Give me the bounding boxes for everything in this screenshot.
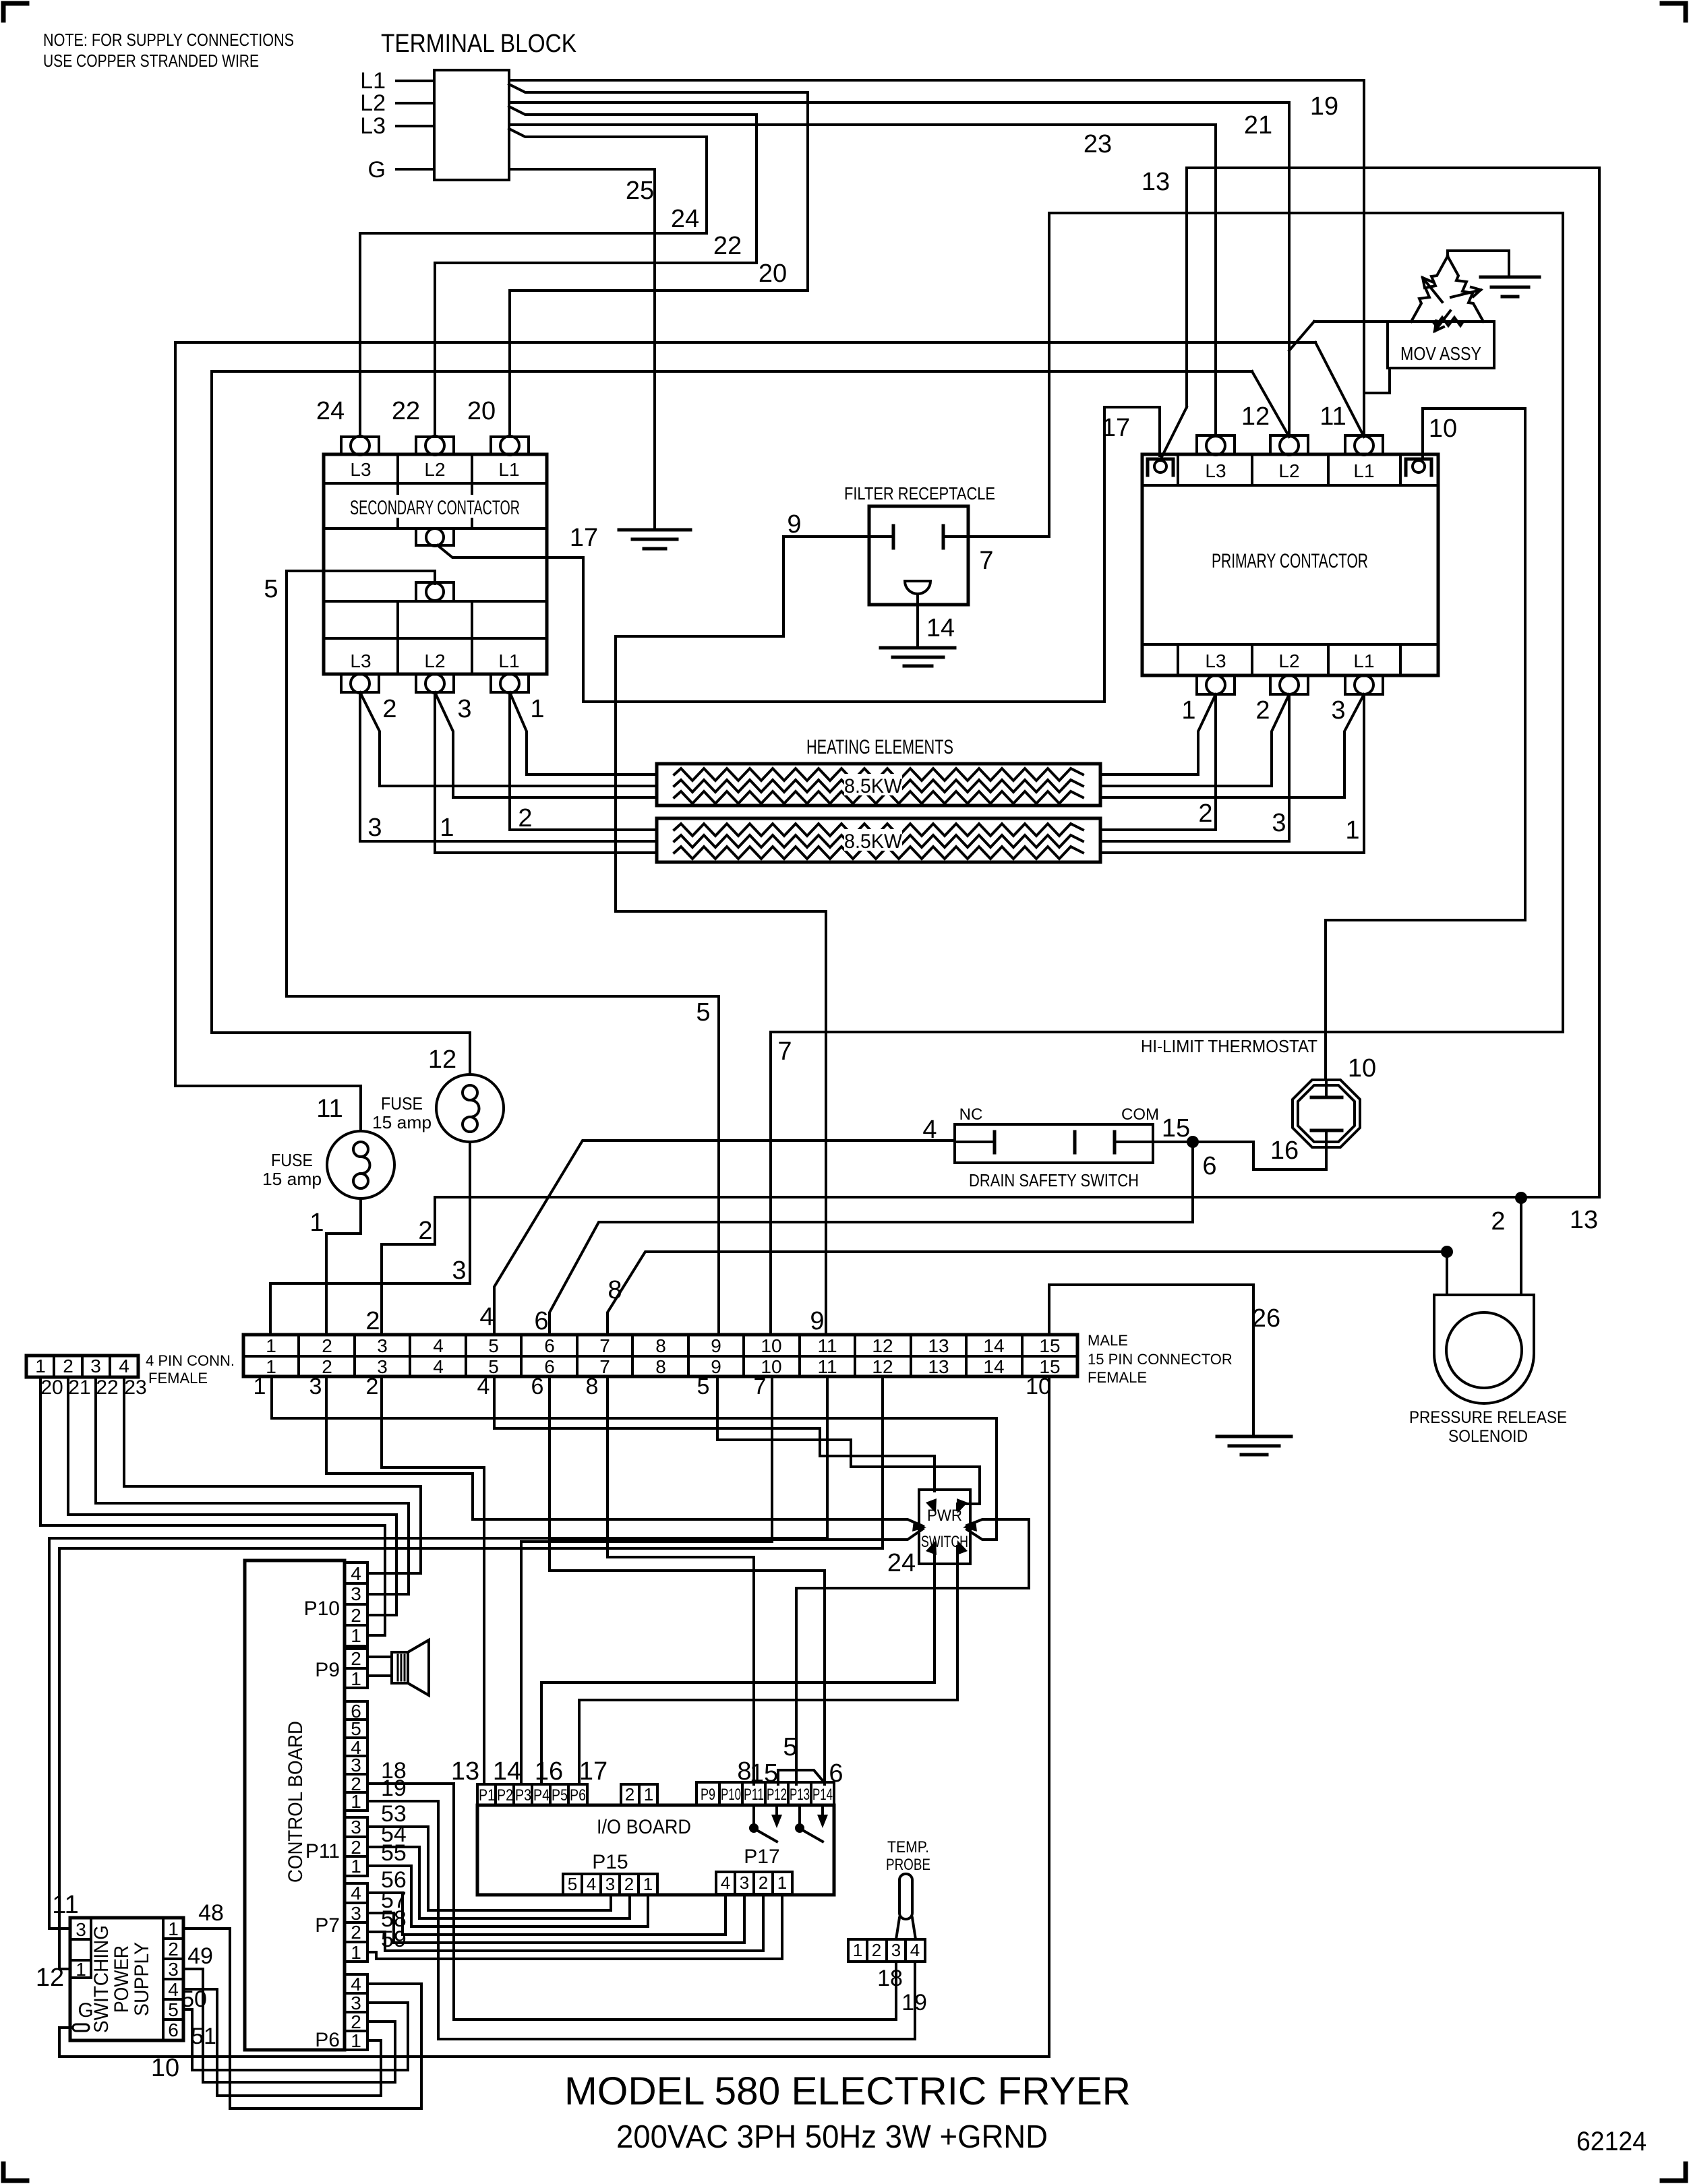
svg-text:9: 9 xyxy=(711,1335,721,1356)
pressure release solenoid right lead xyxy=(1520,1198,1522,1295)
svg-text:POWER: POWER xyxy=(111,1945,133,2013)
wire 2 secondary L3 to element1 xyxy=(360,692,657,786)
secondary top lug at x=645 xyxy=(416,437,454,454)
primary contactor K1 body xyxy=(1142,454,1438,675)
svg-text:3: 3 xyxy=(457,695,471,723)
wire 2 secondary L1 straight to element2 xyxy=(510,692,657,830)
svg-text:4: 4 xyxy=(168,1979,179,2000)
fuse F1 15amp xyxy=(327,1131,394,1199)
drain switch middle pin xyxy=(1073,1132,1077,1153)
svg-text:10: 10 xyxy=(1429,415,1457,443)
svg-text:11: 11 xyxy=(1320,402,1346,431)
drain switch right pin xyxy=(1113,1132,1117,1153)
MOV wire to net 21 xyxy=(1314,320,1411,323)
svg-text:55: 55 xyxy=(381,1840,407,1866)
svg-text:2: 2 xyxy=(351,1648,361,1669)
wire 55 xyxy=(367,1866,648,1927)
P6 stub wires xyxy=(367,1982,421,1985)
svg-text:11: 11 xyxy=(52,1891,78,1919)
wire 1 fuse F1 to male pin 2 xyxy=(326,1199,361,1335)
svg-text:15 amp: 15 amp xyxy=(262,1169,322,1189)
MOV varistor left xyxy=(1411,256,1448,322)
svg-text:3: 3 xyxy=(740,1873,749,1893)
wire 10 xyxy=(1326,408,1525,1080)
svg-text:22: 22 xyxy=(96,1376,118,1399)
primary bottom lug at x=1912 xyxy=(1270,675,1308,694)
wire 2/13 horizontal run xyxy=(382,1197,1599,1335)
svg-text:3: 3 xyxy=(452,1256,466,1285)
svg-text:5: 5 xyxy=(264,575,278,603)
svg-text:SWITCHING: SWITCHING xyxy=(90,1925,113,2033)
IO board top connector 2|1 xyxy=(621,1784,657,1805)
page corner mark bottom-left xyxy=(3,2164,27,2181)
svg-text:P4: P4 xyxy=(533,1786,550,1804)
svg-text:8: 8 xyxy=(586,1374,599,1399)
secondary bottom lug at x=534 xyxy=(341,674,379,692)
pressure release solenoid coil xyxy=(1446,1312,1522,1388)
wire L2 input xyxy=(396,102,434,104)
svg-text:1: 1 xyxy=(1345,816,1359,845)
wire 51 power supply pin5 to P6.3 xyxy=(183,2003,408,2070)
wire 13 xyxy=(1187,168,1599,1197)
wire female pin9 to power switch top-right xyxy=(717,1376,980,1510)
IO board relay contact P13-P14 xyxy=(798,1805,801,1824)
power switch right contact xyxy=(963,1521,977,1531)
svg-text:16: 16 xyxy=(1270,1136,1299,1165)
svg-text:6: 6 xyxy=(531,1374,544,1399)
svg-text:P14: P14 xyxy=(812,1786,833,1804)
svg-text:3: 3 xyxy=(367,814,382,842)
temp probe connector xyxy=(848,1939,925,1962)
svg-text:13: 13 xyxy=(1570,1206,1598,1234)
svg-text:8.5KW: 8.5KW xyxy=(844,830,903,853)
wire 3 primary L2 straight to element2 xyxy=(1100,694,1289,841)
wire 9 xyxy=(616,537,893,1335)
svg-text:P3: P3 xyxy=(515,1786,531,1804)
svg-text:13: 13 xyxy=(928,1335,949,1356)
ground symbol wire 26 xyxy=(1217,1435,1291,1438)
svg-text:8: 8 xyxy=(655,1335,666,1356)
svg-text:4: 4 xyxy=(922,1116,937,1144)
wire 48 power supply pin1 to P6.4 xyxy=(183,1929,421,2109)
svg-text:P2: P2 xyxy=(497,1786,513,1804)
svg-text:L1: L1 xyxy=(498,650,519,671)
wire 1 primary L3 to element1 xyxy=(1100,694,1216,775)
wire female pin6 to power switch left lower xyxy=(550,1376,923,1540)
svg-text:10: 10 xyxy=(761,1335,781,1356)
primary contactor right clamp terminal xyxy=(1406,459,1431,475)
svg-text:51: 51 xyxy=(191,2024,216,2049)
svg-text:1: 1 xyxy=(351,1942,361,1963)
svg-text:TERMINAL BLOCK: TERMINAL BLOCK xyxy=(381,30,576,58)
wire 14 to ground xyxy=(916,594,919,648)
svg-text:1: 1 xyxy=(853,1940,862,1960)
svg-text:20: 20 xyxy=(467,397,496,425)
svg-text:18: 18 xyxy=(877,1966,903,1991)
svg-text:9: 9 xyxy=(787,510,801,539)
svg-text:DRAIN SAFETY SWITCH: DRAIN SAFETY SWITCH xyxy=(969,1170,1139,1190)
ground for wire 25 xyxy=(619,528,690,532)
heating element 1 coil bottom xyxy=(674,791,1083,803)
svg-text:59: 59 xyxy=(381,1927,407,1952)
MOV ground symbol xyxy=(1481,276,1539,279)
svg-text:3: 3 xyxy=(309,1374,322,1399)
svg-text:P5: P5 xyxy=(552,1786,568,1804)
svg-text:2: 2 xyxy=(1255,696,1270,725)
wire 6 female pin6 branch to IO P14 xyxy=(550,1540,825,1784)
svg-text:2: 2 xyxy=(518,804,532,832)
svg-text:16: 16 xyxy=(535,1757,563,1786)
wire 25 xyxy=(509,169,655,530)
svg-text:7: 7 xyxy=(777,1037,792,1066)
connector P8 6-pin xyxy=(345,1701,367,1811)
heating element 1 box xyxy=(657,764,1100,806)
svg-text:L3: L3 xyxy=(1205,650,1226,671)
control board outline xyxy=(245,1560,345,2050)
svg-text:3: 3 xyxy=(351,1903,361,1924)
power switch top-left contact xyxy=(926,1498,937,1513)
svg-text:2: 2 xyxy=(624,1874,634,1894)
secondary top lug at x=756 xyxy=(491,437,529,454)
wire 1 secondary L2 straight to element2 xyxy=(435,692,657,853)
svg-text:2: 2 xyxy=(351,2011,361,2032)
svg-text:P6: P6 xyxy=(570,1786,586,1804)
heating element 1 coil top xyxy=(674,768,1083,781)
wire 3 fuse F2 to male pin 1 xyxy=(270,1142,470,1335)
svg-text:4: 4 xyxy=(351,1883,361,1904)
svg-text:MALE: MALE xyxy=(1088,1332,1128,1349)
MOV assy label box xyxy=(1388,322,1494,368)
svg-text:7: 7 xyxy=(754,1374,767,1399)
svg-text:15: 15 xyxy=(1162,1114,1190,1143)
svg-text:2: 2 xyxy=(168,1939,179,1960)
svg-text:PRESSURE RELEASE: PRESSURE RELEASE xyxy=(1409,1408,1567,1427)
svg-text:1: 1 xyxy=(266,1335,276,1356)
svg-text:3: 3 xyxy=(1331,696,1345,725)
svg-text:4: 4 xyxy=(351,1563,361,1584)
heating element 2 coil bottom xyxy=(674,847,1083,859)
svg-text:2: 2 xyxy=(322,1356,332,1377)
svg-text:1: 1 xyxy=(1181,696,1195,725)
MOV varistor bottom xyxy=(1411,317,1483,326)
svg-text:P13: P13 xyxy=(790,1786,810,1804)
svg-text:SECONDARY CONTACTOR: SECONDARY CONTACTOR xyxy=(350,497,520,519)
svg-text:24: 24 xyxy=(316,397,345,425)
svg-text:22: 22 xyxy=(713,232,742,260)
svg-text:FUSE: FUSE xyxy=(271,1150,313,1170)
wire 49 power supply pin3 to P6.2 xyxy=(183,1969,395,2082)
svg-text:4: 4 xyxy=(433,1335,444,1356)
secondary contactor coil lug upper xyxy=(416,528,454,545)
svg-text:2: 2 xyxy=(322,1335,332,1356)
secondary contactor K2 body xyxy=(324,454,547,674)
wire P9.1 to speaker xyxy=(367,1674,392,1677)
wire 12 xyxy=(212,371,1252,1074)
svg-text:5: 5 xyxy=(783,1733,797,1761)
pressure release solenoid body xyxy=(1434,1295,1534,1403)
svg-text:4: 4 xyxy=(721,1873,730,1893)
primary contactor left clamp terminal xyxy=(1148,459,1173,475)
svg-text:62124: 62124 xyxy=(1576,2127,1647,2156)
wire L1 input xyxy=(396,80,434,82)
svg-text:L2: L2 xyxy=(360,90,386,116)
svg-text:NC: NC xyxy=(959,1105,983,1124)
svg-text:5: 5 xyxy=(351,1718,361,1739)
svg-text:2: 2 xyxy=(759,1873,768,1893)
connector P9 xyxy=(345,1649,367,1688)
svg-text:4: 4 xyxy=(119,1356,129,1376)
wire 23 xyxy=(509,125,1216,436)
svg-text:14: 14 xyxy=(493,1757,521,1786)
svg-text:1: 1 xyxy=(644,1784,653,1804)
page corner mark top-left xyxy=(3,3,27,20)
svg-text:24: 24 xyxy=(887,1549,916,1577)
filter receptacle left pin xyxy=(869,535,893,538)
svg-text:MOV ASSY: MOV ASSY xyxy=(1400,343,1481,364)
svg-text:2: 2 xyxy=(1198,799,1212,828)
primary bottom lug at x=2023 xyxy=(1345,675,1383,694)
heating element 2 coil top xyxy=(674,824,1083,836)
svg-text:2: 2 xyxy=(1491,1207,1505,1236)
svg-text:1: 1 xyxy=(643,1874,653,1894)
wire 2 primary L2 to element1 xyxy=(1100,694,1289,786)
svg-text:13: 13 xyxy=(1142,168,1170,196)
svg-text:6: 6 xyxy=(1202,1152,1216,1180)
svg-text:P12: P12 xyxy=(767,1786,787,1804)
svg-text:1: 1 xyxy=(351,2030,361,2051)
wire 21 4-pin pin2 to P10.2 xyxy=(68,1377,396,1615)
svg-text:NOTE: FOR SUPPLY CONNECTIONS: NOTE: FOR SUPPLY CONNECTIONS xyxy=(43,30,294,50)
svg-text:HI-LIMIT THERMOSTAT: HI-LIMIT THERMOSTAT xyxy=(1141,1036,1317,1056)
heating element 1 label xyxy=(844,774,902,795)
svg-text:1: 1 xyxy=(35,1356,46,1376)
IO board relay contact P11-P12 xyxy=(752,1805,755,1824)
svg-text:L2: L2 xyxy=(424,650,445,671)
svg-text:2: 2 xyxy=(625,1784,634,1804)
junction dot solenoid right xyxy=(1515,1192,1527,1204)
svg-text:P6: P6 xyxy=(315,2029,340,2051)
svg-text:TEMP.: TEMP. xyxy=(887,1838,929,1856)
svg-text:8: 8 xyxy=(608,1276,622,1304)
wire 15 jumper IO P12 to P14 xyxy=(778,1770,825,1784)
svg-text:4: 4 xyxy=(477,1374,490,1399)
wire female pin2 to power switch left xyxy=(326,1376,923,1526)
IO board outline xyxy=(477,1805,834,1895)
svg-text:200VAC 3PH 50Hz 3W +GRND: 200VAC 3PH 50Hz 3W +GRND xyxy=(616,2119,1048,2155)
svg-text:15 amp: 15 amp xyxy=(372,1112,432,1132)
svg-text:14: 14 xyxy=(926,614,955,642)
wire 19 control board to temp probe xyxy=(367,1801,915,2039)
svg-text:USE COPPER STRANDED WIRE: USE COPPER STRANDED WIRE xyxy=(43,51,259,71)
svg-text:12: 12 xyxy=(872,1335,893,1356)
secondary bottom lug at x=645 xyxy=(416,674,454,692)
power switch bottom-left contact xyxy=(926,1540,937,1555)
svg-text:2: 2 xyxy=(351,1922,361,1943)
svg-text:22: 22 xyxy=(392,397,420,425)
svg-text:15 PIN CONNECTOR: 15 PIN CONNECTOR xyxy=(1088,1351,1233,1368)
svg-text:3: 3 xyxy=(377,1356,388,1377)
power switch S1 box xyxy=(919,1490,970,1564)
power switch left contact xyxy=(912,1521,926,1531)
svg-text:P17: P17 xyxy=(744,1846,779,1868)
svg-text:20: 20 xyxy=(40,1376,63,1399)
junction dot solenoid left xyxy=(1441,1246,1453,1258)
svg-text:1: 1 xyxy=(266,1356,276,1377)
wire 3 secondary L3 straight to element2 xyxy=(360,692,657,841)
wire 23 4-pin pin4 to P10.4 xyxy=(124,1377,421,1573)
svg-text:49: 49 xyxy=(187,1943,213,1969)
svg-text:10: 10 xyxy=(1348,1054,1376,1083)
power switch top-right contact xyxy=(957,1498,968,1513)
filter receptacle right pin xyxy=(943,535,968,538)
wire 17 power switch bottom-right to IO P6 xyxy=(579,1546,957,1784)
hi-limit contact bars xyxy=(1311,1096,1342,1099)
IO board top connector P9-P14 xyxy=(697,1782,834,1805)
svg-text:2: 2 xyxy=(366,1374,379,1399)
svg-text:I/O BOARD: I/O BOARD xyxy=(597,1816,691,1838)
wire 5 xyxy=(287,571,719,1335)
MOV ground connection xyxy=(1448,251,1509,277)
wire 3 primary L1 to element1 xyxy=(1100,694,1364,797)
svg-text:14: 14 xyxy=(983,1356,1004,1377)
wire 58 xyxy=(367,1894,763,1951)
wire female pin5 to power switch top-left xyxy=(494,1376,935,1491)
svg-text:3: 3 xyxy=(605,1874,615,1894)
svg-text:L1: L1 xyxy=(1353,460,1374,481)
svg-text:9: 9 xyxy=(711,1356,721,1377)
wire 19 xyxy=(509,80,1364,436)
svg-text:8: 8 xyxy=(655,1356,666,1377)
power switch bottom-right contact xyxy=(957,1540,968,1555)
svg-text:P10: P10 xyxy=(304,1598,340,1620)
power supply left pins xyxy=(90,1918,92,1978)
svg-text:L1: L1 xyxy=(1353,650,1374,671)
wire 13 diagonal into clamp xyxy=(1161,407,1187,458)
svg-text:P15: P15 xyxy=(592,1851,628,1873)
svg-text:L3: L3 xyxy=(1205,460,1226,481)
svg-text:2: 2 xyxy=(382,695,396,723)
svg-text:21: 21 xyxy=(1244,111,1272,140)
svg-text:1: 1 xyxy=(777,1873,787,1893)
svg-text:3: 3 xyxy=(168,1959,179,1980)
filter receptacle ground pin dome xyxy=(905,581,930,594)
IO board top connector P1-P6 xyxy=(477,1784,587,1805)
svg-text:2: 2 xyxy=(351,1837,361,1858)
wire 11 female pin11 to power supply xyxy=(49,1376,827,1929)
svg-text:4: 4 xyxy=(910,1940,920,1960)
wire 8 female pin7 to IO P11 xyxy=(608,1376,754,1784)
svg-text:G: G xyxy=(78,1999,93,2022)
MOV varistor right xyxy=(1448,256,1483,322)
svg-text:L2: L2 xyxy=(1278,650,1299,671)
svg-text:6: 6 xyxy=(544,1356,555,1377)
wire 22 xyxy=(435,107,757,436)
svg-text:1: 1 xyxy=(351,1668,361,1689)
wire 17 xyxy=(438,407,1160,702)
wire 10 female pin15 to power supply ground xyxy=(59,1376,1049,2057)
svg-text:3: 3 xyxy=(377,1335,388,1356)
svg-text:P11: P11 xyxy=(305,1840,340,1862)
svg-text:14: 14 xyxy=(983,1335,1004,1356)
wire 22 4-pin pin3 to P10.3 xyxy=(96,1377,409,1594)
svg-text:PRIMARY CONTACTOR: PRIMARY CONTACTOR xyxy=(1212,550,1368,572)
svg-text:3: 3 xyxy=(1272,809,1286,837)
svg-text:P10: P10 xyxy=(721,1786,741,1804)
svg-text:7: 7 xyxy=(599,1356,610,1377)
svg-text:FILTER RECEPTACLE: FILTER RECEPTACLE xyxy=(844,483,995,504)
svg-text:21: 21 xyxy=(68,1376,90,1399)
svg-text:1: 1 xyxy=(309,1209,324,1237)
svg-text:12: 12 xyxy=(36,1964,64,1992)
svg-text:23: 23 xyxy=(1084,130,1112,158)
heating element 1 coil mid xyxy=(674,780,1083,792)
svg-text:3: 3 xyxy=(90,1356,101,1376)
connector P7 xyxy=(345,1883,367,1962)
svg-text:11: 11 xyxy=(316,1095,343,1123)
wire 2 primary L3 straight to element2 xyxy=(1100,694,1216,830)
svg-text:17: 17 xyxy=(579,1757,608,1786)
primary bottom lug at x=1803 xyxy=(1197,675,1235,694)
svg-text:2: 2 xyxy=(418,1217,432,1245)
wire 26 xyxy=(1049,1285,1253,1436)
svg-text:4: 4 xyxy=(587,1874,596,1894)
wire 5 power switch right to IO P13 xyxy=(796,1519,1029,1784)
page corner mark top-right xyxy=(1662,3,1686,20)
svg-text:5: 5 xyxy=(488,1356,499,1377)
speaker xyxy=(392,1652,408,1683)
svg-text:25: 25 xyxy=(626,177,654,205)
svg-text:5: 5 xyxy=(168,1999,179,2020)
svg-text:3: 3 xyxy=(76,1919,86,1940)
svg-text:P9: P9 xyxy=(315,1659,340,1681)
svg-text:L1: L1 xyxy=(498,459,519,480)
wire 50 power supply pin4 to P6.1 xyxy=(183,1989,381,2096)
svg-text:FEMALE: FEMALE xyxy=(1088,1369,1147,1386)
wire 59 xyxy=(367,1894,782,1959)
svg-text:26: 26 xyxy=(1252,1304,1280,1333)
svg-text:6: 6 xyxy=(534,1307,548,1335)
svg-text:3: 3 xyxy=(351,1755,361,1776)
ground symbol 14 xyxy=(881,646,955,650)
svg-text:4: 4 xyxy=(479,1303,494,1331)
svg-text:13: 13 xyxy=(451,1757,479,1786)
svg-text:5: 5 xyxy=(697,1374,710,1399)
svg-text:8.5KW: 8.5KW xyxy=(844,775,903,797)
svg-text:6: 6 xyxy=(544,1335,555,1356)
wire 12 female pin12 to power supply xyxy=(59,1376,883,1969)
svg-text:24: 24 xyxy=(671,205,699,233)
primary top lug at x=1803 xyxy=(1197,435,1235,454)
MOV wire to net 19 xyxy=(1364,368,1390,393)
svg-text:3: 3 xyxy=(891,1940,901,1960)
wire 7 xyxy=(771,213,1563,1335)
svg-text:2: 2 xyxy=(63,1356,73,1376)
svg-text:1: 1 xyxy=(351,1856,361,1877)
wire 18 control board to temp probe xyxy=(367,1784,896,2020)
wire 14 female pin10 to IO P3 xyxy=(521,1376,772,1784)
svg-text:2: 2 xyxy=(872,1940,881,1960)
wire 11 xyxy=(175,342,1315,1131)
svg-text:COM: COM xyxy=(1121,1105,1159,1124)
svg-text:5: 5 xyxy=(488,1335,499,1356)
svg-text:20: 20 xyxy=(759,260,787,288)
svg-text:1: 1 xyxy=(254,1374,266,1399)
temp probe neck xyxy=(896,1918,899,1939)
svg-text:7: 7 xyxy=(979,547,993,575)
wire 16 power switch bottom-left to IO P4 xyxy=(541,1546,935,1784)
svg-text:P9: P9 xyxy=(701,1786,715,1804)
fuse F2 15amp xyxy=(436,1074,504,1142)
